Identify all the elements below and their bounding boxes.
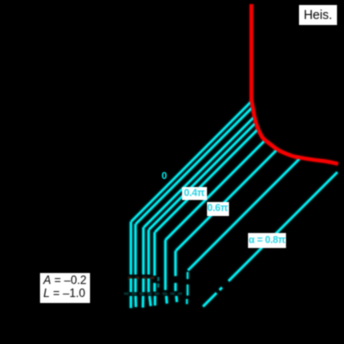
trajectory 6 diagonal: [165, 140, 265, 240]
hidden dashed line upper (dark red): [128, 277, 158, 279]
label 0: [162, 171, 168, 182]
red separatrix: [251, 4, 338, 164]
hidden dim dashed drop: [157, 277, 159, 288]
trajectory 1 drop: [130, 222, 132, 308]
label 0.6pi: [207, 202, 229, 216]
trajectory 6 drop: [165, 240, 167, 304]
trajectory 9 (alpha=0.8pi) diagonal with gap: [203, 172, 337, 306]
trajectory 7 drop: [176, 251, 177, 302]
trajectory 8 diagonal: [188, 158, 301, 271]
trajectory 4 diagonal: [149, 123, 256, 230]
label alpha = 0.8pi: [248, 233, 286, 248]
trajectory 7 (0.6pi) diagonal: [176, 149, 277, 250]
label 0.4pi: [182, 187, 207, 201]
trajectory 2 diagonal: [136, 107, 253, 224]
trajectory 5 drop: [153, 232, 156, 305]
trajectory 8 drop dashed: [186, 272, 189, 304]
label Heis.: [299, 5, 337, 25]
trajectory 5 (0.4pi) diagonal: [155, 129, 258, 232]
trajectory 2 drop: [134, 224, 137, 307]
trajectory 3 drop: [142, 227, 145, 307]
trajectory 4 drop: [149, 230, 151, 306]
hidden dashed line lower (dark teal): [124, 293, 182, 295]
label A, L parameters: [40, 273, 90, 303]
trajectory 3 diagonal: [144, 117, 255, 228]
trajectory 1 diagonal: [131, 101, 251, 221]
